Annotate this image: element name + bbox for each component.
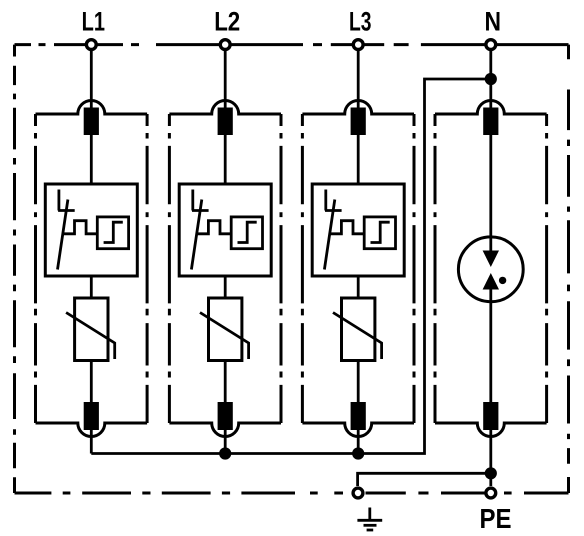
junction node PE1 <box>485 467 497 479</box>
terminal PE <box>486 488 496 498</box>
svg-text:L2: L2 <box>214 7 240 37</box>
svg-text:PE: PE <box>480 503 512 534</box>
wire thermal disconnector to varistor RV3 <box>357 276 360 298</box>
wire varistor RV2 to module 2 bottom contact <box>224 361 227 403</box>
module 1 boundary (plug-in module outline) <box>36 101 148 437</box>
wire node N1 to module 4 top contact <box>489 79 492 108</box>
ground symbol <box>357 508 382 531</box>
wire varistor RV1 to module 1 bottom contact <box>90 361 93 403</box>
junction node module 2 bottom <box>219 447 231 459</box>
svg-text:L1: L1 <box>82 7 105 37</box>
device enclosure border (dash-dot) <box>15 45 569 493</box>
module 2 bottom contact <box>218 402 233 430</box>
module 1 bottom contact <box>84 402 99 430</box>
terminal L1 <box>86 40 96 50</box>
wire varistor RV3 to module 3 bottom contact <box>357 361 360 403</box>
junction node module 3 bottom <box>352 447 364 459</box>
module 2 boundary (plug-in module outline) <box>169 101 281 437</box>
wire module 4 bottom contact to node PE1 <box>489 430 492 473</box>
wire common line L-modules to node N1 <box>91 79 491 454</box>
terminal N <box>486 40 496 50</box>
wire thermal disconnector to varistor RV1 <box>90 276 93 298</box>
thermal disconnector F3 <box>312 184 404 276</box>
module 1 top contact <box>84 108 99 136</box>
wire top contact to thermal disconnector F3 <box>357 135 360 184</box>
svg-text:L3: L3 <box>349 7 372 37</box>
svg-text:N: N <box>485 7 502 37</box>
wire module 1 bottom contact to common line <box>90 430 93 454</box>
wire L2 terminal to module 2 top contact <box>224 51 227 108</box>
wire L3 terminal to module 3 top contact <box>357 51 360 108</box>
terminal L2 <box>220 40 230 50</box>
module 3 top contact <box>351 108 366 136</box>
wire thermal disconnector to varistor RV2 <box>224 276 227 298</box>
thermal disconnector F1 <box>45 184 137 276</box>
module 4 boundary (plug-in module outline) <box>435 101 547 437</box>
wire spark gap to module 4 bottom contact <box>489 290 492 403</box>
varistor RV3 <box>333 298 382 361</box>
wire top contact to thermal disconnector F2 <box>224 135 227 184</box>
wire L1 terminal to module 1 top contact <box>90 51 93 108</box>
terminal L3 <box>353 40 363 50</box>
wire node PE1 to terminal PE <box>489 473 492 486</box>
module 4 bottom contact <box>483 402 498 430</box>
wire module 2 bottom contact to common line <box>224 430 227 454</box>
wire module 3 bottom contact to common line <box>357 430 360 454</box>
varistor RV1 <box>66 298 115 361</box>
module 3 bottom contact <box>351 402 366 430</box>
spark gap F4 (triggered) <box>458 237 523 302</box>
wire top contact to spark gap <box>489 135 492 251</box>
wire node PE1 to earth terminal <box>358 473 491 486</box>
wire N terminal to node N1 <box>489 51 492 79</box>
module 2 top contact <box>218 108 233 136</box>
varistor RV2 <box>200 298 249 361</box>
module 4 top contact <box>483 108 498 136</box>
thermal disconnector F2 <box>179 184 271 276</box>
wire top contact to thermal disconnector F1 <box>90 135 93 184</box>
module 3 boundary (plug-in module outline) <box>302 101 414 437</box>
terminal earth <box>353 488 363 498</box>
junction node N1 <box>485 73 497 85</box>
